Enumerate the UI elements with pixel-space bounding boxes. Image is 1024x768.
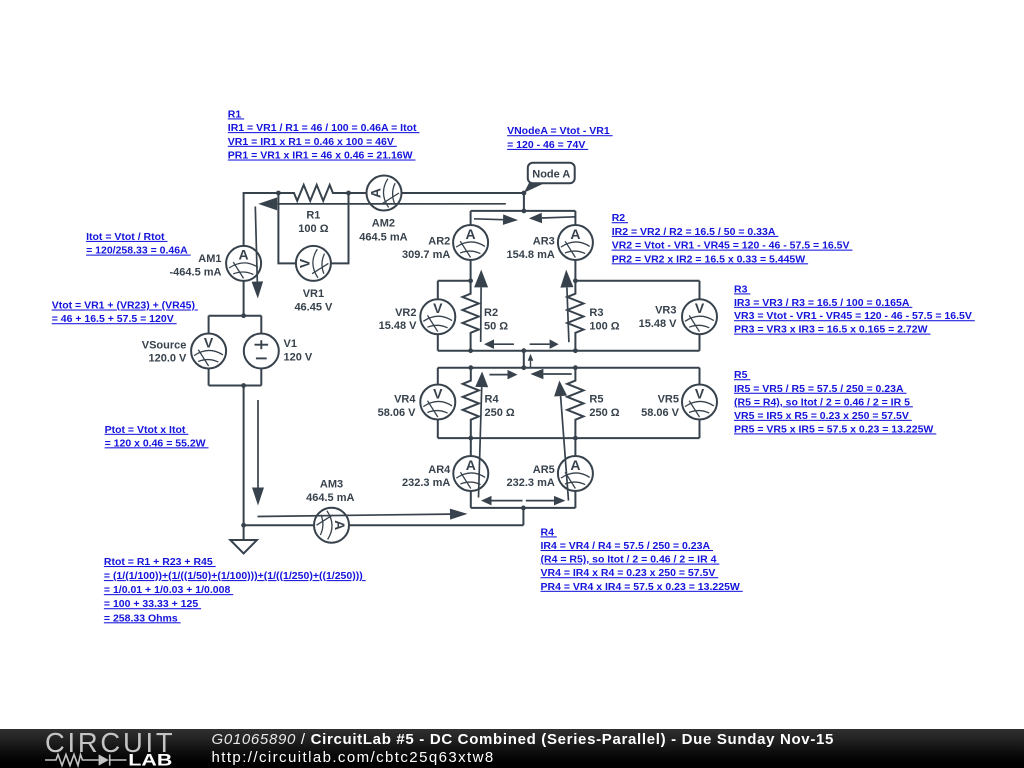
wire VR4 top lead bbox=[437, 368, 439, 385]
wire VR1 left branch bbox=[278, 193, 295, 263]
wire AM2 to node A bbox=[401, 192, 524, 194]
node center lower bbox=[521, 365, 526, 370]
svg-text:Ptot = Vtot x Itot: Ptot = Vtot x Itot bbox=[105, 424, 189, 436]
voltmeter VR5 bbox=[682, 385, 717, 420]
wire AR2 bottom lead bbox=[470, 260, 472, 281]
ammeter AM2 bbox=[367, 176, 402, 211]
svg-text:309.7 mA: 309.7 mA bbox=[402, 249, 450, 261]
svg-text:R5: R5 bbox=[734, 369, 750, 381]
wire bottom rail AR4-AR5 bbox=[471, 507, 576, 509]
svg-text:IR1 = VR1 / R1 = 46 / 100 = 0.: IR1 = VR1 / R1 = 46 / 100 = 0.46A = Itot bbox=[228, 122, 420, 134]
arrow right lower rail bbox=[489, 374, 507, 376]
arrow up through R2 bbox=[480, 287, 482, 342]
arrow current left along top wire bbox=[277, 203, 506, 205]
node R2 bottom bbox=[468, 348, 473, 353]
wire lower top rail bbox=[438, 367, 700, 369]
node R4 bottom bbox=[468, 436, 473, 441]
node AR3-R3 bbox=[573, 278, 578, 283]
svg-text:Itot = Vtot / Rtot: Itot = Vtot / Rtot bbox=[86, 231, 167, 243]
svg-text:250 Ω: 250 Ω bbox=[589, 407, 619, 419]
svg-text:AR2: AR2 bbox=[428, 236, 450, 248]
svg-text:= 258.33 Ohms: = 258.33 Ohms bbox=[104, 612, 181, 624]
wire top from AM1 corner to R1 bbox=[244, 192, 279, 194]
wire AR4 top lead bbox=[470, 438, 472, 456]
svg-text:A: A bbox=[367, 188, 383, 198]
wire V1 bottom lead bbox=[260, 368, 262, 385]
svg-text:R4: R4 bbox=[485, 394, 500, 406]
wire left vertical top to AM1 bbox=[243, 192, 245, 246]
svg-text:VSource: VSource bbox=[142, 339, 187, 351]
ground bbox=[230, 540, 257, 554]
wire VR3 bottom lead bbox=[699, 334, 701, 351]
ammeter AR5 bbox=[558, 456, 593, 491]
svg-text:VNodeA = Vtot - VR1: VNodeA = Vtot - VR1 bbox=[507, 125, 612, 137]
svg-text:IR2 = VR2 / R2 = 16.5 / 50 = 0: IR2 = VR2 / R2 = 16.5 / 50 = 0.33A bbox=[612, 226, 779, 238]
arrow up center small bbox=[530, 361, 532, 368]
voltage source V1 bbox=[244, 334, 279, 369]
svg-text:V: V bbox=[204, 334, 214, 350]
node sources top bbox=[241, 313, 246, 318]
svg-text:A: A bbox=[239, 247, 249, 263]
wire V1 top lead bbox=[260, 316, 262, 334]
svg-text:= 120 - 46 = 74V: = 120 - 46 = 74V bbox=[507, 139, 588, 151]
footer url bbox=[212, 749, 495, 766]
svg-text:120.0 V: 120.0 V bbox=[148, 353, 187, 365]
svg-text:AR5: AR5 bbox=[533, 464, 555, 476]
node sources bottom bbox=[241, 383, 246, 388]
ammeter AR4 bbox=[453, 456, 488, 491]
wire AR3 top lead bbox=[574, 211, 576, 225]
wire lower mid rail bbox=[438, 437, 700, 439]
svg-text:Rtot = R1 + R23 + R45: Rtot = R1 + R23 + R45 bbox=[104, 556, 216, 568]
svg-text:A: A bbox=[466, 226, 476, 242]
arrow into node right bbox=[474, 218, 503, 221]
arrow up through R5 bbox=[561, 396, 569, 501]
svg-text:154.8 mA: 154.8 mA bbox=[506, 249, 554, 261]
svg-text:= 100 + 33.33 + 125: = 100 + 33.33 + 125 bbox=[104, 598, 201, 610]
arrow left lower rail bbox=[543, 373, 571, 375]
svg-text:= 120/258.33 = 0.46A: = 120/258.33 = 0.46A bbox=[86, 245, 191, 257]
svg-text:A: A bbox=[570, 226, 580, 242]
svg-text:AR4: AR4 bbox=[428, 464, 451, 476]
svg-text:120 V: 120 V bbox=[284, 352, 313, 364]
node A label bbox=[524, 182, 547, 193]
arrow right lower R3 bbox=[530, 343, 550, 345]
wire VR2 bottom lead bbox=[437, 334, 439, 351]
ammeter AR2 bbox=[453, 225, 488, 260]
svg-text:R3: R3 bbox=[734, 283, 750, 295]
voltmeter VR3 bbox=[682, 299, 717, 334]
svg-text:R2: R2 bbox=[484, 307, 498, 319]
svg-text:V1: V1 bbox=[284, 338, 297, 350]
svg-text:AM3: AM3 bbox=[320, 479, 343, 491]
wire VSource bottom lead bbox=[208, 368, 210, 385]
CircuitLab logo bbox=[0, 729, 200, 768]
wire ground stem bbox=[243, 525, 245, 540]
node R5 bottom bbox=[573, 436, 578, 441]
wire VR3 tap horizontal bbox=[575, 280, 699, 282]
svg-text:V: V bbox=[297, 258, 313, 268]
wire AM3 to bottom center bbox=[349, 524, 523, 526]
wire VR2 tap horizontal bbox=[438, 280, 471, 282]
svg-text:Vtot = VR1 + (VR23) + (VR45): Vtot = VR1 + (VR23) + (VR45) bbox=[52, 300, 198, 312]
voltmeter VR4 bbox=[420, 385, 455, 420]
wire AR5 top lead bbox=[574, 438, 576, 456]
svg-text:PR4 = VR4 x IR4 = 57.5 x 0.23: PR4 = VR4 x IR4 = 57.5 x 0.23 = 13.225W bbox=[541, 581, 743, 593]
ammeter AR3 bbox=[558, 225, 593, 260]
svg-text:VR3: VR3 bbox=[655, 304, 676, 316]
svg-text:46.45 V: 46.45 V bbox=[294, 301, 333, 313]
resistor R3 bbox=[567, 281, 583, 351]
resistor R5 bbox=[567, 368, 583, 438]
svg-text:50 Ω: 50 Ω bbox=[484, 320, 508, 332]
svg-text:AM2: AM2 bbox=[372, 218, 395, 230]
arrow right bottom rail bbox=[526, 500, 554, 502]
svg-text:VR1 = IR1 x R1 = 0.46 x 100 =: VR1 = IR1 x R1 = 0.46 x 100 = 46V bbox=[228, 136, 397, 148]
svg-text:A: A bbox=[466, 457, 476, 473]
footer title bbox=[212, 731, 835, 748]
wire VR5 bottom lead bbox=[699, 419, 701, 438]
node R3 bottom bbox=[573, 348, 578, 353]
svg-text:A: A bbox=[332, 520, 348, 530]
svg-text:(R4 = R5), so Itot / 2 = 0.46: (R4 = R5), so Itot / 2 = 0.46 / 2 = IR 4 bbox=[541, 554, 720, 566]
svg-text:PR5 = VR5 x IR5 = 57.5 x 0.23: PR5 = VR5 x IR5 = 57.5 x 0.23 = 13.225W bbox=[734, 423, 936, 435]
resistor R1 bbox=[278, 185, 349, 201]
wire R1 right lead to AM2 bbox=[349, 192, 367, 194]
node R1 right bbox=[346, 191, 351, 196]
arrow up through R4 bbox=[479, 387, 482, 497]
ammeter AM3 bbox=[314, 508, 349, 543]
svg-text:= 120 x 0.46 = 55.2W: = 120 x 0.46 = 55.2W bbox=[105, 437, 209, 449]
wire VR1 right branch bbox=[331, 193, 349, 263]
svg-text:100 Ω: 100 Ω bbox=[589, 320, 619, 332]
arrow into node left bbox=[542, 217, 576, 218]
svg-text:V: V bbox=[433, 385, 443, 401]
svg-text:PR3 = VR3 x IR3 = 16.5 x 0.165: PR3 = VR3 x IR3 = 16.5 x 0.165 = 2.72W bbox=[734, 324, 930, 336]
svg-text:R1: R1 bbox=[228, 108, 244, 120]
wire AR4 bottom lead bbox=[470, 491, 472, 508]
node rail top center bbox=[522, 209, 527, 214]
wire ground junction to AM3 bbox=[244, 524, 314, 526]
svg-text:58.06 V: 58.06 V bbox=[641, 407, 680, 419]
svg-text:VR3 = Vtot - VR1 - VR45 = 120: VR3 = Vtot - VR1 - VR45 = 120 - 46 - 57.… bbox=[734, 310, 975, 322]
svg-text:58.06 V: 58.06 V bbox=[378, 407, 417, 419]
arrow left lower R2 bbox=[494, 343, 514, 345]
resistor R4 bbox=[463, 368, 479, 438]
arrow current down left wire bbox=[257, 400, 259, 488]
voltmeter VR2 bbox=[420, 299, 455, 334]
node bottom center bbox=[521, 506, 526, 511]
wire VR2 top lead bbox=[437, 281, 439, 300]
svg-text:V: V bbox=[695, 300, 705, 316]
ammeter AM1 bbox=[226, 246, 261, 281]
footer bar bbox=[0, 729, 1024, 768]
resistor R2 bbox=[463, 281, 479, 351]
svg-text:VR5: VR5 bbox=[658, 394, 679, 406]
node ground bbox=[241, 523, 246, 528]
svg-text:15.48 V: 15.48 V bbox=[639, 318, 678, 330]
arrow current down at AM1 bbox=[255, 207, 257, 282]
svg-text:VR2: VR2 bbox=[395, 307, 416, 319]
svg-text:PR1 = VR1 x IR1 = 46 x 0.46 =: PR1 = VR1 x IR1 = 46 x 0.46 = 21.16W bbox=[228, 150, 416, 162]
svg-text:VR4 = IR4 x R4 = 0.23 x 250 =: VR4 = IR4 x R4 = 0.23 x 250 = 57.5V bbox=[541, 567, 719, 579]
svg-text:464.5 mA: 464.5 mA bbox=[306, 492, 354, 504]
svg-text:V: V bbox=[695, 385, 705, 401]
svg-text:VR5 = IR5 x R5 = 0.23 x 250 =: VR5 = IR5 x R5 = 0.23 x 250 = 57.5V bbox=[734, 410, 912, 422]
svg-text:-464.5 mA: -464.5 mA bbox=[170, 266, 222, 278]
svg-text:232.3 mA: 232.3 mA bbox=[506, 477, 554, 489]
svg-text:IR4 = VR4 / R4 = 57.5 / 250 =: IR4 = VR4 / R4 = 57.5 / 250 = 0.23A bbox=[541, 540, 713, 552]
svg-text:464.5 mA: 464.5 mA bbox=[359, 231, 407, 243]
wire upper bottom rail bbox=[438, 350, 700, 352]
wire upper rail AR2-AR3 bbox=[471, 210, 576, 212]
wire center connector bbox=[523, 351, 525, 368]
svg-text:(R5 = R4), so Itot / 2 = 0.46: (R5 = R4), so Itot / 2 = 0.46 / 2 = IR 5 bbox=[734, 396, 913, 408]
svg-text:Node A: Node A bbox=[532, 168, 570, 180]
svg-text:IR5 = VR5 / R5 = 57.5 / 250 =: IR5 = VR5 / R5 = 57.5 / 250 = 0.23A bbox=[734, 383, 906, 395]
arrow current right at AM3 bbox=[258, 514, 451, 516]
svg-text:250 Ω: 250 Ω bbox=[485, 407, 515, 419]
svg-text:R4: R4 bbox=[541, 526, 557, 538]
node center upper bbox=[521, 348, 526, 353]
svg-text:V: V bbox=[433, 300, 443, 316]
svg-text:R3: R3 bbox=[589, 307, 603, 319]
node R1 left bbox=[276, 191, 281, 196]
wire sources bottom rail bbox=[209, 385, 262, 387]
node A junction bbox=[522, 191, 527, 196]
svg-text:100 Ω: 100 Ω bbox=[298, 223, 328, 235]
node R5 top bbox=[573, 365, 578, 370]
svg-text:IR3 = VR3 / R3 = 16.5 / 100 =: IR3 = VR3 / R3 = 16.5 / 100 = 0.165A bbox=[734, 297, 912, 309]
svg-text:VR1: VR1 bbox=[303, 288, 324, 300]
voltmeter VR1 bbox=[296, 246, 331, 281]
svg-text:R1: R1 bbox=[306, 210, 320, 222]
svg-text:= (1/(1/100))+(1/((1/50)+(1/10: = (1/(1/100))+(1/((1/50)+(1/100)))+(1/((… bbox=[104, 570, 366, 582]
svg-text:= 46 + 16.5 + 57.5 = 120V: = 46 + 16.5 + 57.5 = 120V bbox=[52, 313, 177, 325]
wire AR3 bottom lead bbox=[574, 260, 576, 281]
wire VR3 top lead bbox=[699, 281, 701, 300]
wire AM1 to source junction bbox=[243, 281, 245, 316]
svg-text:AM1: AM1 bbox=[198, 253, 221, 265]
svg-text:R2: R2 bbox=[612, 212, 628, 224]
svg-text:R5: R5 bbox=[589, 394, 603, 406]
svg-text:AR3: AR3 bbox=[533, 236, 555, 248]
wire node A drop bbox=[523, 193, 525, 211]
svg-text:VR2 = Vtot - VR1 - VR45 = 120: VR2 = Vtot - VR1 - VR45 = 120 - 46 - 57.… bbox=[612, 240, 853, 252]
wire AR2 top lead bbox=[470, 211, 472, 225]
node AR2-R2 bbox=[468, 278, 473, 283]
wire VR5 top lead bbox=[699, 368, 701, 385]
node R4 top bbox=[468, 365, 473, 370]
wire bottom center riser bbox=[522, 508, 524, 525]
wire sources top rail bbox=[209, 315, 262, 317]
wire main left vertical bbox=[243, 386, 245, 526]
wire AR5 bottom lead bbox=[574, 491, 576, 508]
svg-text:VR4: VR4 bbox=[394, 394, 416, 406]
svg-text:LAB: LAB bbox=[128, 751, 172, 768]
voltmeter VSource bbox=[191, 334, 226, 369]
svg-text:15.48 V: 15.48 V bbox=[379, 320, 418, 332]
svg-text:PR2 = VR2 x IR2 = 16.5 x 0.33: PR2 = VR2 x IR2 = 16.5 x 0.33 = 5.445W bbox=[612, 253, 808, 265]
arrow up through R3 bbox=[567, 287, 569, 342]
wire VSource top lead bbox=[208, 316, 210, 334]
arrow left bottom rail bbox=[492, 500, 523, 502]
svg-text:A: A bbox=[570, 457, 580, 473]
svg-text:= 1/0.01 + 1/0.03 + 1/0.008: = 1/0.01 + 1/0.03 + 1/0.008 bbox=[104, 584, 233, 596]
wire VR4 bottom lead bbox=[437, 419, 439, 438]
svg-text:232.3 mA: 232.3 mA bbox=[402, 477, 450, 489]
